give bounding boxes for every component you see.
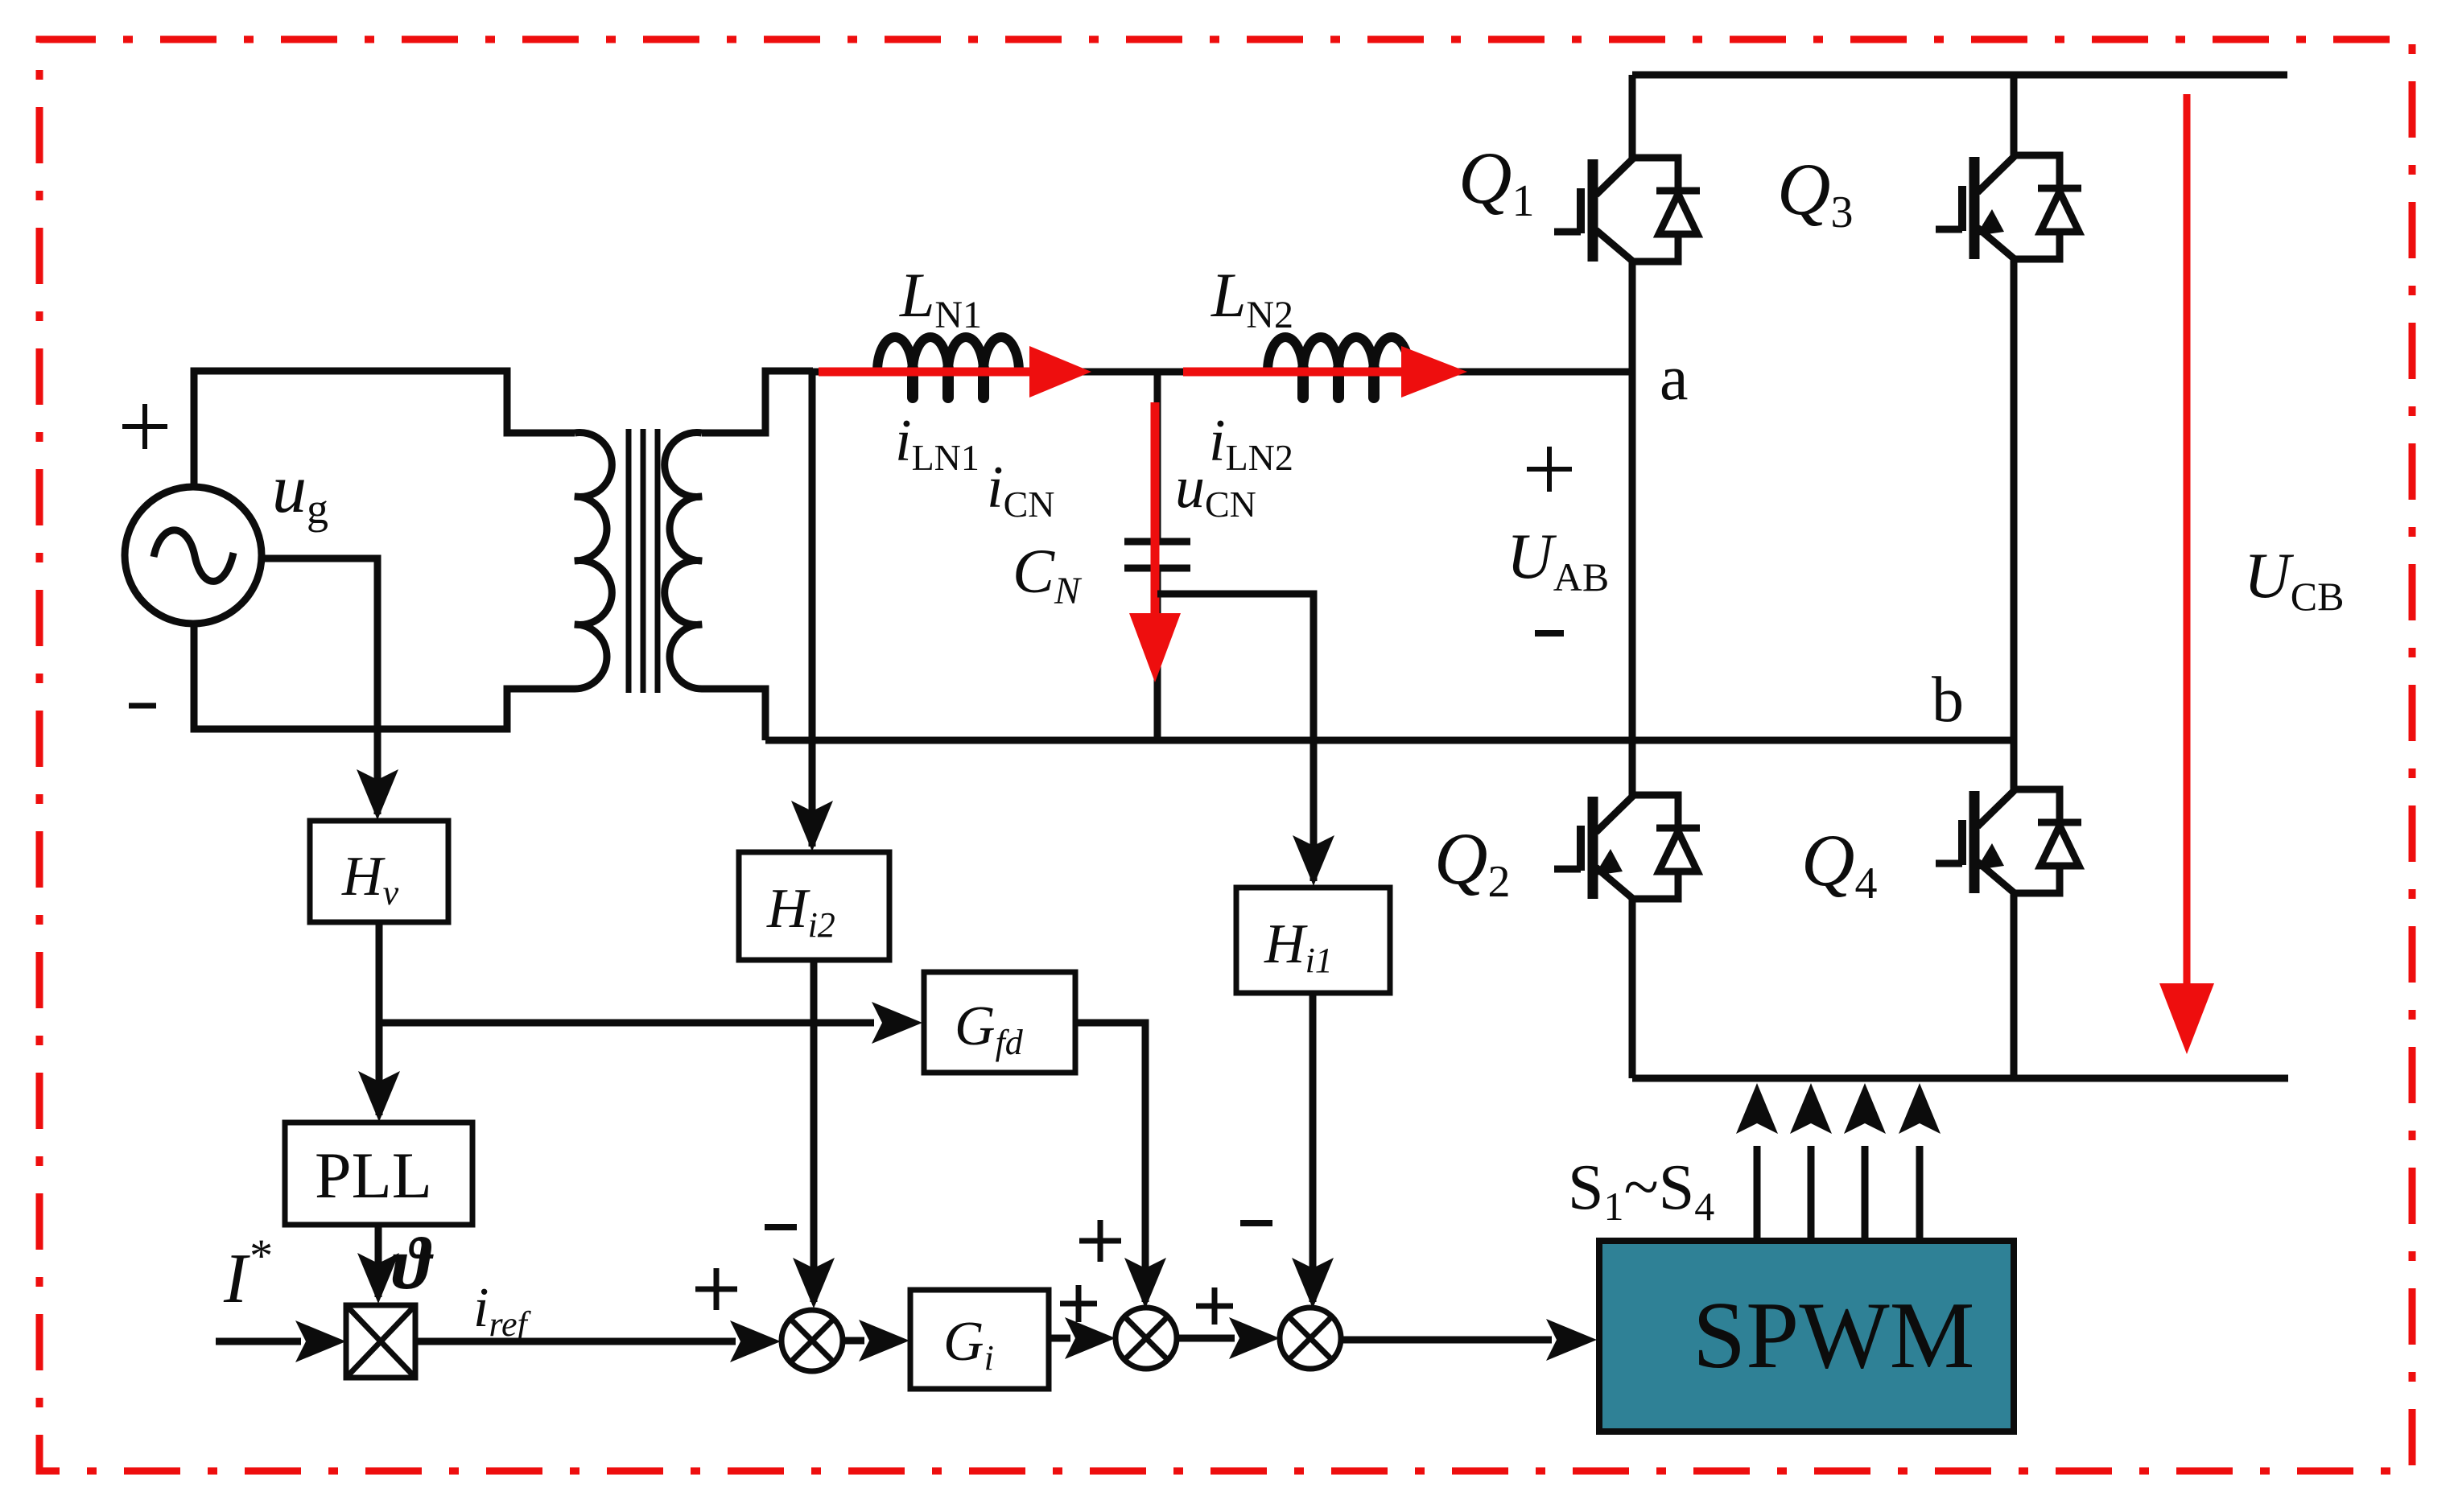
gate drive arrow S4 [1899,1083,1941,1241]
svg-text:a: a [1660,343,1689,414]
red current arrow iLN1 [819,346,1091,398]
gate drive arrow S2 [1790,1083,1832,1241]
ac source ug circle [125,487,262,624]
capacitor CN top lead [1154,372,1161,542]
wire: Gi to summer2 [1049,1317,1116,1359]
wire: Hi2 to summer1 [793,960,835,1308]
wire: Q3 emitter to node b to Q4 collector [2011,259,2018,789]
transistor Q3 [1936,155,2081,259]
label + Gfd into summer2 [1079,1238,1121,1244]
gate drive arrow S3 [1844,1083,1886,1241]
inductor LN1 [877,337,1019,398]
wire: top line through LN1 LN2 to node a [812,369,1632,376]
svg-text:PLL: PLL [315,1139,432,1212]
wire: I* input arrow [216,1320,346,1362]
block Gfd [924,972,1075,1073]
block Hv [310,821,448,922]
gate drive arrow S1 [1736,1083,1778,1241]
block Hi2 [739,852,889,960]
wire: transformer primary bottom to source bottom [194,622,575,729]
label - of UAB [1535,630,1564,637]
wire: top dc bus [1632,72,2287,79]
wire: summer2 to summer3 [1176,1317,1280,1359]
wire: secondary bottom to bottom bus [702,689,765,740]
wire: multiplier to summer1 [415,1320,781,1362]
block SPWM [1599,1241,2014,1432]
multiplier block [346,1305,415,1378]
label + into summer1 [695,1287,737,1292]
block Hi1 [1236,888,1390,993]
wire: Q1 emitter to node a to Q2 collector [1629,262,1636,795]
wire: uCN sense bracket to Hi1 [1157,594,1314,740]
summer1 [782,1310,843,1371]
summer2 [1116,1308,1177,1369]
transformer secondary winding [665,433,702,690]
wire: Hi1 input from bus [1293,740,1334,886]
block Gi [910,1290,1049,1389]
wire: summer1 to Gi [843,1320,909,1362]
wire: bottom bus to node b [765,737,2014,744]
transistor Q2 [1554,795,1700,899]
red current arrow iCN [1129,402,1181,682]
label + into summer3 [1196,1304,1233,1309]
label - into summer3 [1240,1220,1272,1226]
wire: Hv to PLL with Gfd branch [358,922,400,1122]
label + Gi into summer2 [1060,1301,1097,1307]
label - into summer1 [765,1224,797,1230]
label + of source [122,424,167,429]
wire: Q4 emitter to bottom bus [2011,893,2018,1078]
summer3 [1280,1308,1341,1369]
svg-text:S1~S4: S1~S4 [1568,1152,1714,1229]
wire: bottom dc bus [1632,1075,2288,1082]
wire: summer3 to SPWM [1341,1319,1597,1361]
wire: Q1 collector [1629,75,1636,158]
transistor Q4 [1936,789,2081,893]
wire: source right terminal to Hv tap [263,558,377,814]
label + of UAB [1527,467,1572,472]
transformer core [629,429,658,693]
block PLL [285,1123,472,1225]
wire: Gfd to summer2 [1075,1023,1166,1308]
arrow into Hv [357,769,398,820]
red current arrow iLN2 [1183,346,1467,398]
capacitor CN bottom lead [1154,568,1161,740]
wire: Q3 collector [2011,75,2018,155]
transistor Q1 [1554,158,1700,262]
wire: Q2 emitter to bottom bus [1629,899,1636,1078]
svg-text:b: b [1932,665,1964,735]
red voltage arrow UCB [2159,94,2214,1054]
wire: source top to transformer primary top [194,371,575,488]
wire: Hi1 to summer3 [1292,993,1334,1308]
svg-text:SPWM: SPWM [1693,1282,1975,1388]
wire: secondary top to node LN1 [702,371,813,433]
wire: branch to Gfd [379,1002,922,1044]
svg-text:ϑ: ϑ [392,1222,434,1304]
inductor LN2 [1268,337,1409,398]
wire: PLL to multiplier [357,1225,399,1304]
capacitor CN plates [1124,542,1190,568]
transformer primary winding [575,433,612,690]
label - of source [129,703,156,709]
wire: iLN1 tap to Hi2 [791,372,833,851]
